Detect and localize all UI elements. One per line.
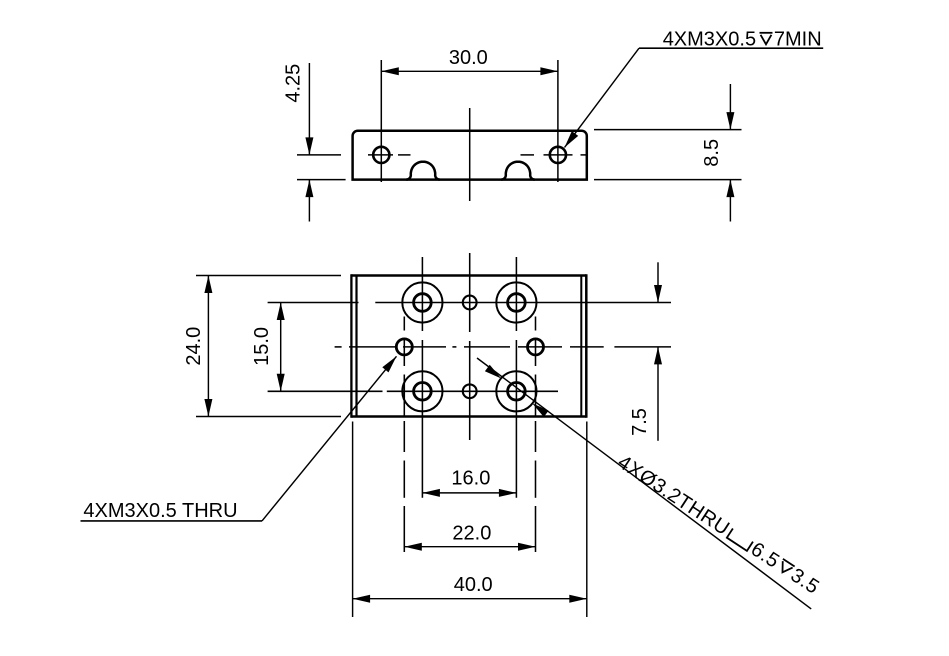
svg-text:24.0: 24.0 [183, 327, 205, 366]
svg-text:7MIN: 7MIN [774, 28, 822, 50]
svg-text:30.0: 30.0 [449, 47, 488, 69]
svg-text:4XM3X0.5 THRU: 4XM3X0.5 THRU [83, 500, 237, 522]
svg-text:4XM3X0.5: 4XM3X0.5 [663, 28, 756, 50]
svg-text:16.0: 16.0 [451, 467, 490, 489]
svg-text:7.5: 7.5 [629, 408, 651, 436]
svg-text:4XØ3.2THRU: 4XØ3.2THRU [614, 451, 734, 540]
svg-text:15.0: 15.0 [251, 327, 273, 366]
svg-text:22.0: 22.0 [452, 522, 491, 544]
svg-text:4.25: 4.25 [283, 64, 305, 103]
svg-text:8.5: 8.5 [701, 139, 723, 167]
svg-text:40.0: 40.0 [454, 574, 493, 596]
